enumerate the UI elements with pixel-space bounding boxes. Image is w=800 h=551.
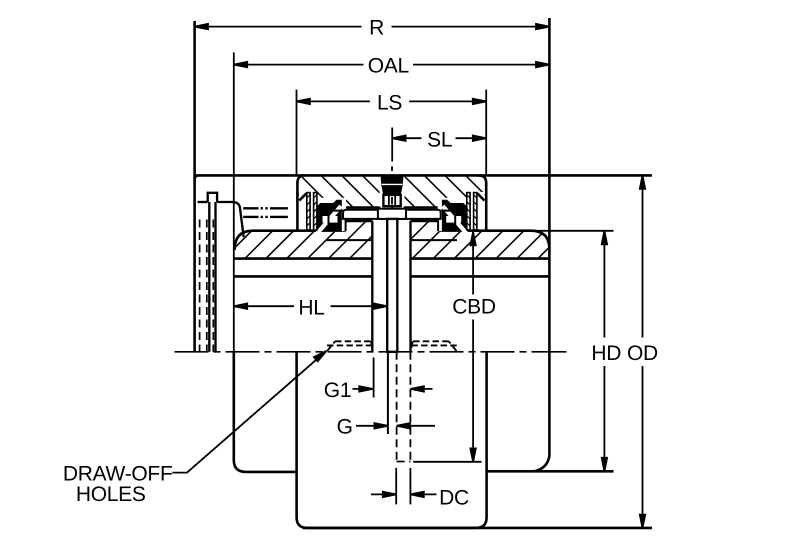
dimension DC line right bbox=[410, 493, 436, 495]
dimension SL center extension bbox=[391, 128, 393, 162]
left shaft end line below axis bbox=[387, 352, 389, 434]
dimension OD line bbox=[642, 175, 644, 528]
left hub face chamfer corner bbox=[217, 202, 244, 237]
seal assembly left bbox=[299, 193, 346, 233]
dimension G arrow right bbox=[397, 423, 410, 428]
shaft gap stem bbox=[387, 219, 397, 352]
seal white backing bbox=[317, 198, 346, 231]
seal white notch bbox=[323, 216, 338, 223]
right hub outboard face bbox=[534, 18, 549, 471]
dimension HD top extension bbox=[531, 230, 614, 232]
hub bore line lower bbox=[234, 275, 550, 278]
dimension HL arrows bbox=[234, 304, 387, 309]
sleeve lower bottom edge with OD extension bbox=[303, 527, 652, 530]
phantom line c bbox=[212, 220, 214, 352]
dimension OAL line bbox=[234, 64, 550, 66]
hidden hole bottom bbox=[397, 461, 411, 463]
seal pocket white left bbox=[299, 192, 317, 230]
right hub inner face bbox=[409, 221, 411, 352]
sleeve inner bore line bbox=[345, 206, 442, 209]
dimension CBD arrows bbox=[470, 232, 475, 462]
dimension G1 line left bbox=[353, 388, 373, 390]
svg-text:SL: SL bbox=[427, 128, 452, 151]
left hub barrel lower half bbox=[234, 352, 297, 472]
dimension OAL arrows bbox=[234, 62, 550, 67]
dimension SL line bbox=[392, 137, 486, 139]
hub rim joint line left bbox=[327, 239, 373, 241]
svg-text:CBD: CBD bbox=[452, 295, 496, 318]
dimension R line bbox=[195, 26, 550, 28]
hub flange left outline bbox=[235, 221, 373, 250]
gasket ring outer bbox=[307, 193, 310, 230]
lube plug body split line bbox=[382, 183, 403, 185]
left plate top line bbox=[198, 201, 208, 203]
svg-text:HD: HD bbox=[591, 342, 621, 365]
svg-text:OAL: OAL bbox=[368, 55, 409, 78]
dimension DC line left bbox=[371, 493, 396, 495]
dimension HL line bbox=[234, 305, 387, 307]
hub flange left cross-section bbox=[235, 221, 373, 259]
dimension OD arrows bbox=[640, 175, 645, 528]
dimension CBD bottom extension bbox=[413, 461, 481, 463]
dimension DC arrow right bbox=[410, 492, 423, 497]
gasket ring ticks bbox=[307, 195, 317, 226]
lube plug shank bbox=[383, 195, 400, 206]
dimension LS extensions bbox=[297, 90, 487, 174]
draw-off thread mark lower bbox=[243, 216, 288, 218]
left drum face edge bbox=[195, 21, 199, 352]
phantom line b bbox=[206, 220, 208, 352]
dimension HD line bbox=[603, 231, 605, 471]
draw-off thread mark upper bbox=[243, 207, 288, 209]
left plate tab bbox=[208, 193, 217, 202]
svg-text:DC: DC bbox=[439, 486, 469, 509]
right shaft end hidden line bbox=[396, 352, 398, 461]
hub flange right outline bbox=[411, 221, 550, 249]
hub bore line upper bbox=[234, 257, 550, 260]
draw-off hole phantom left bbox=[327, 341, 373, 351]
grid bar center cap bbox=[378, 209, 406, 219]
right hub face hidden line bbox=[409, 352, 411, 461]
lube plug white backing bbox=[380, 177, 405, 207]
sleeve cross-section hatch bbox=[299, 177, 485, 208]
svg-text:HOLES: HOLES bbox=[76, 483, 146, 506]
dimension R arrows bbox=[195, 24, 550, 29]
hub rim joint line right bbox=[411, 239, 458, 241]
dimension SL arrows bbox=[392, 136, 486, 141]
dimension G line right bbox=[397, 425, 435, 427]
draw-off hole phantom right bbox=[411, 341, 457, 351]
svg-text:G: G bbox=[337, 415, 353, 438]
left plate sides bbox=[209, 202, 215, 352]
seal retainer outline bbox=[329, 211, 346, 231]
dimension G1 arrow right bbox=[411, 386, 424, 391]
svg-text:LS: LS bbox=[377, 92, 402, 115]
sleeve lower half exterior bbox=[297, 352, 487, 528]
axis centerline horizontal bbox=[175, 351, 541, 353]
left hub inner face bbox=[371, 221, 373, 352]
svg-text:R: R bbox=[369, 17, 384, 40]
grid spring bar bbox=[343, 210, 441, 219]
gasket ring inner bbox=[314, 193, 317, 230]
axis centerline vertical dash above body bbox=[391, 166, 393, 171]
lube plug dark body bbox=[381, 176, 404, 195]
dimension LS line bbox=[297, 100, 487, 102]
lube plug shank threads bbox=[389, 195, 395, 206]
coupling outer top edge bbox=[197, 174, 652, 177]
dimension DC extensions bbox=[396, 468, 410, 505]
centerline dash through plug bbox=[391, 197, 393, 209]
dimension OAL left extension bbox=[233, 52, 235, 351]
dimension HD arrows bbox=[602, 231, 607, 471]
dimension R right extension bbox=[548, 18, 550, 27]
dimension G1 extension bbox=[373, 358, 375, 398]
sleeve cross-section outline bbox=[297, 175, 486, 230]
svg-text:HL: HL bbox=[298, 297, 324, 320]
svg-text:OD: OD bbox=[627, 342, 658, 365]
right hub barrel bottom edge with HD extension bbox=[487, 470, 614, 473]
seal white stripe bbox=[318, 206, 342, 233]
seal pocket white right bbox=[467, 192, 485, 230]
draw-off holes leader bbox=[172, 351, 326, 473]
dimension G1 arrow left bbox=[359, 386, 372, 391]
hub flange right cross-section bbox=[411, 221, 550, 259]
dimension CBD line bbox=[472, 232, 474, 462]
dimension G arrow left bbox=[374, 423, 387, 428]
seal assembly right (mirror) bbox=[438, 193, 485, 233]
phantom line a bbox=[199, 220, 201, 352]
dimension LS arrows bbox=[297, 99, 487, 104]
svg-text:G1: G1 bbox=[324, 379, 351, 402]
dimension DC arrow left bbox=[383, 492, 396, 497]
dimension G1 line right bbox=[411, 388, 433, 390]
draw-off holes leader arrow bbox=[314, 351, 327, 362]
seal elastomer dark mass bbox=[317, 200, 342, 232]
dimension G line left bbox=[356, 425, 388, 427]
